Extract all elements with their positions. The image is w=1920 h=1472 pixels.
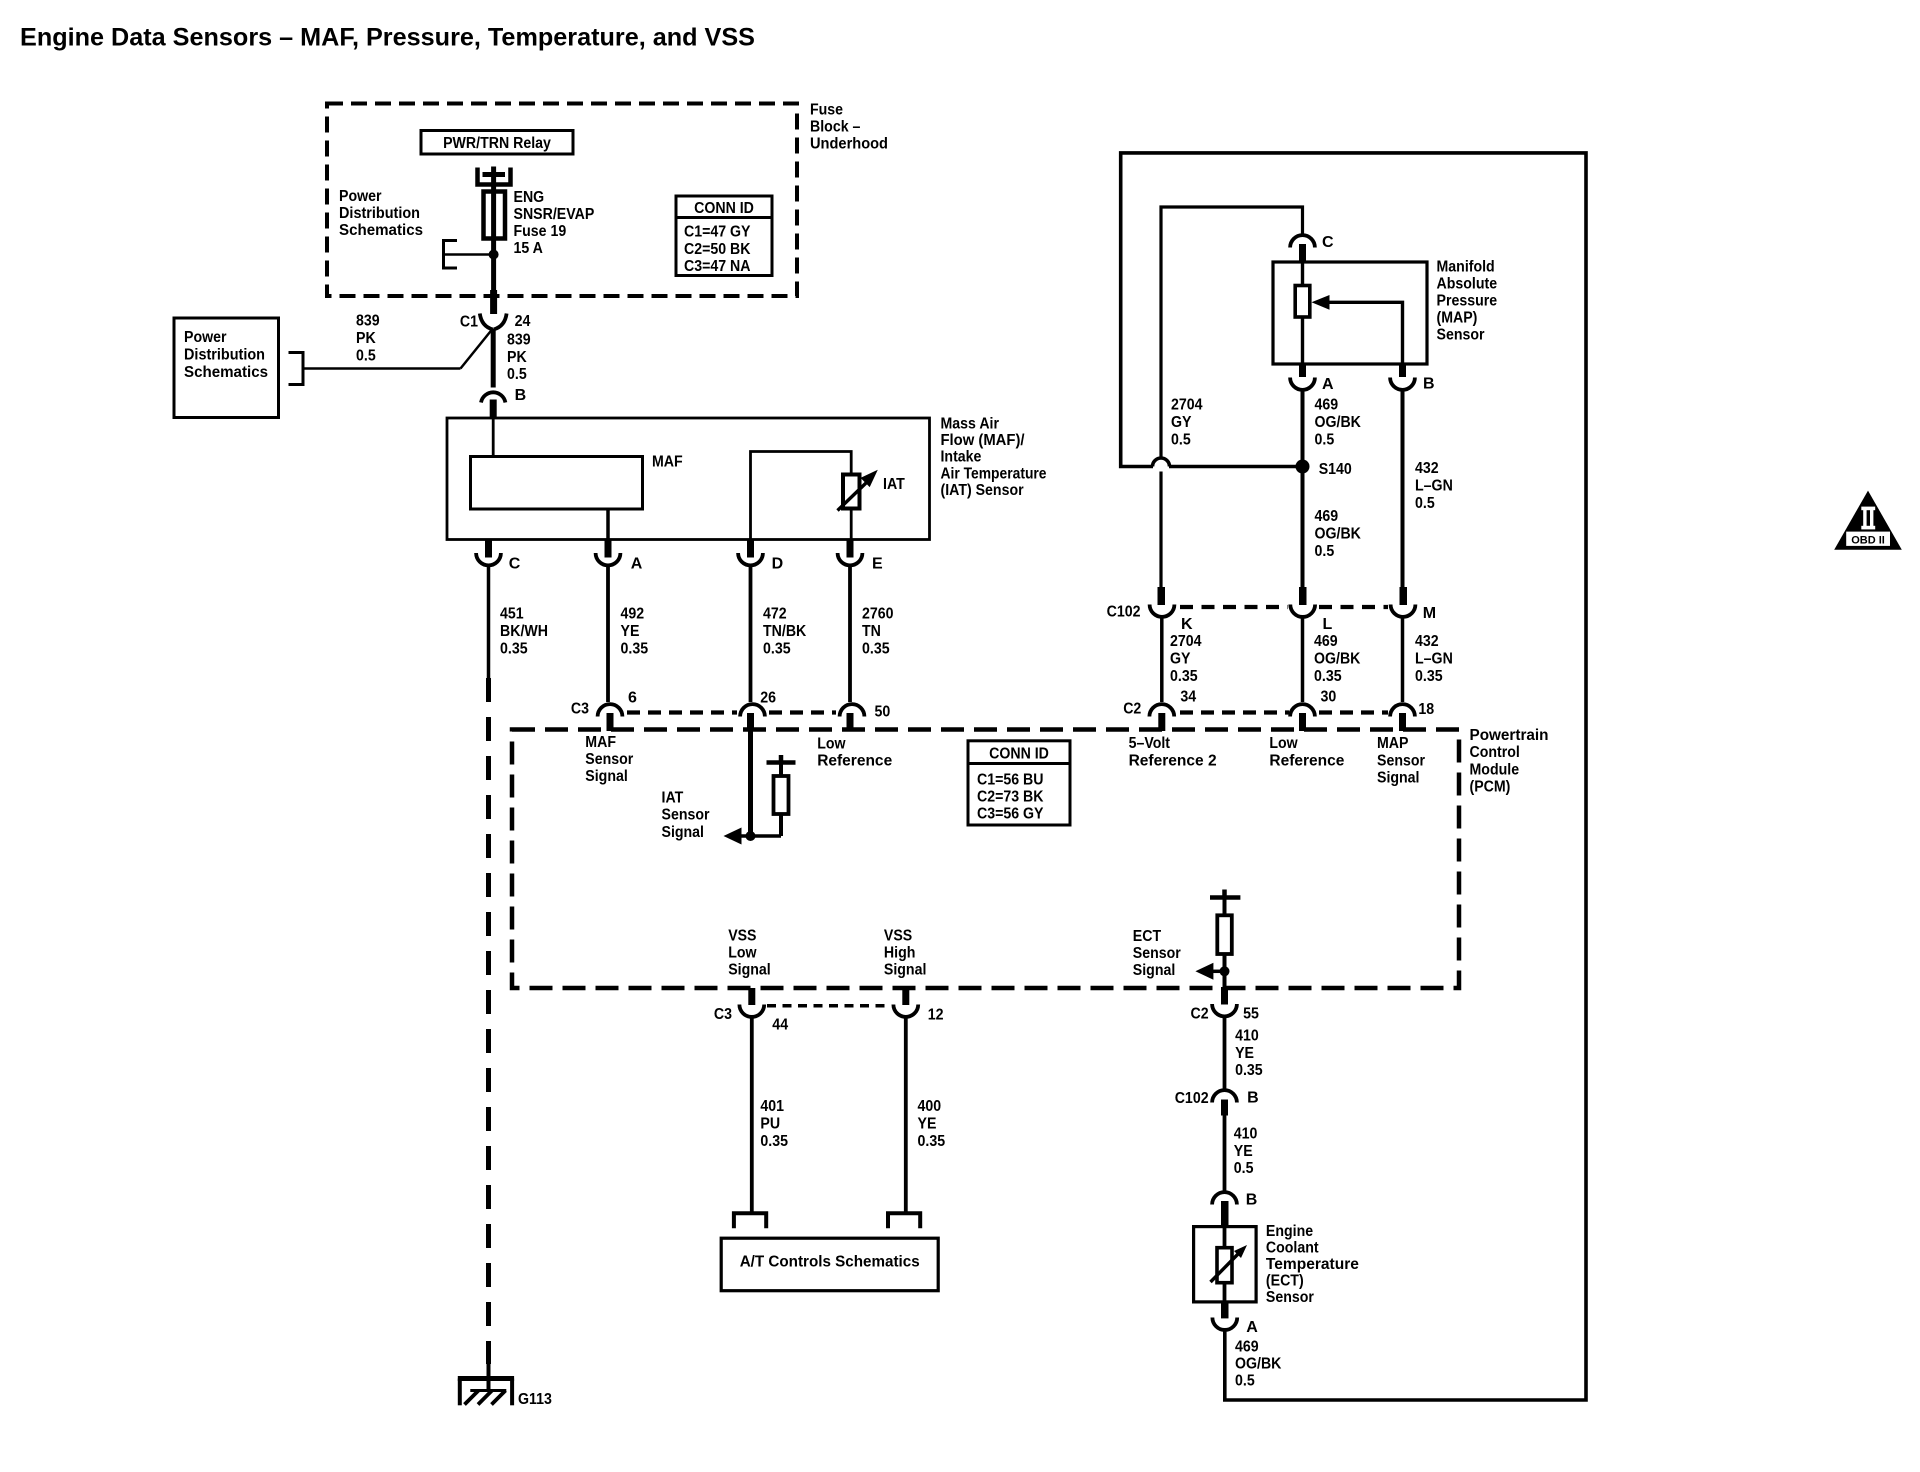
svg-text:839: 839 [356,313,380,330]
IAT thermistor wiring loop [751,452,852,541]
ECT pin A stub + connector [1212,1302,1237,1330]
wire 469 OG/BK 0.5 label (lower) [1315,508,1362,560]
connector C102 pin L [1290,587,1315,617]
wire 400 YE [904,1016,908,1214]
fuse F19 ENG SNSR/EVAP Fuse 19 15 A [484,192,506,254]
svg-text:Sensor: Sensor [1133,945,1181,962]
svg-text:Signal: Signal [1377,770,1420,787]
off-page bracket (401) [734,1213,766,1228]
MAP sensor signal label [1377,735,1425,787]
svg-text:0.5: 0.5 [1171,431,1191,448]
svg-text:Sensor: Sensor [1437,327,1485,344]
power distribution reference label (in fuse block) [339,188,423,239]
MAP potentiometer element [1295,262,1310,364]
wire 839 PK 0.5 label (right) [507,332,531,384]
svg-text:0.5: 0.5 [1315,431,1335,448]
connector B (in-line at MAF) [481,392,505,418]
svg-text:Powertrain: Powertrain [1470,727,1549,744]
wire 432 L-GN (MAP B to C102 M) [1401,389,1405,588]
svg-text:TN: TN [862,623,881,640]
svg-text:A: A [1246,1319,1258,1336]
svg-text:PK: PK [507,349,527,366]
OBD II marker [1834,491,1902,550]
svg-text:Sensor: Sensor [585,751,633,768]
svg-text:472: 472 [763,605,787,622]
svg-text:YE: YE [1234,1143,1253,1160]
VSS low signal label [728,928,771,979]
svg-text:Signal: Signal [585,768,628,785]
svg-text:(ECT): (ECT) [1266,1273,1304,1290]
svg-text:MAF: MAF [652,454,683,471]
svg-text:VSS: VSS [884,928,913,945]
connector C102 pin B [1212,1090,1237,1115]
svg-text:0.35: 0.35 [760,1133,788,1150]
svg-text:B: B [1246,1192,1258,1209]
relay K1 contact symbol [478,167,511,197]
svg-text:C3=56 GY: C3=56 GY [977,806,1044,823]
connector C3 pin 50 [840,704,865,731]
svg-text:469: 469 [1315,508,1339,525]
MAF pin C stub + connector [476,540,501,566]
svg-text:IAT: IAT [883,476,905,493]
svg-text:451: 451 [500,605,524,622]
wire 2704 GY 0.35 (K to PCM 34) [1160,616,1164,703]
low reference label (C2 30) [1269,735,1344,769]
svg-text:2704: 2704 [1170,633,1202,650]
svg-text:Manifold: Manifold [1437,259,1495,276]
svg-text:PK: PK [356,330,376,347]
IAT sensor signal label [662,790,710,841]
connector C3 pin 44 [739,988,764,1017]
C3 row dashes 26-50 [769,710,836,714]
svg-text:Intake: Intake [941,449,982,466]
svg-text:OG/BK: OG/BK [1315,414,1362,431]
wire 432 L-GN 0.35 (M to PCM 18) [1401,616,1405,703]
svg-text:S140: S140 [1319,461,1352,478]
svg-text:A: A [1322,376,1334,393]
wire 432 L-GN 0.35 label [1415,633,1453,685]
wire 492 YE [606,565,610,702]
MAP sensor label [1437,259,1498,344]
svg-text:C1: C1 [460,314,478,331]
connector C (MAP sensor) [1290,235,1315,263]
wire 432 L-GN 0.5 label [1415,460,1453,512]
svg-text:C: C [1322,234,1334,251]
svg-text:0.5: 0.5 [1415,495,1435,512]
svg-text:2760: 2760 [862,605,894,622]
svg-text:50: 50 [875,704,891,721]
svg-text:CONN ID: CONN ID [989,746,1049,763]
ECT sensor signal label [1133,928,1181,979]
svg-text:Sensor: Sensor [1266,1289,1314,1306]
svg-text:Schematics: Schematics [339,222,423,239]
wire B pin into MAF element [492,418,495,457]
svg-text:ENG: ENG [514,189,545,206]
svg-text:Reference: Reference [817,753,892,770]
svg-text:Low: Low [817,736,846,753]
junction below fuse [489,250,499,260]
svg-text:B: B [515,387,527,404]
connector B (ECT sensor) [1212,1192,1237,1227]
wire 410 YE 0.5 (C102 B to ECT B) [1223,1116,1227,1192]
svg-text:Control: Control [1470,744,1520,761]
C3 row 2 dashes 44-12 [767,1004,891,1008]
ECT pull-up rail (in PCM) [1210,890,1240,916]
wire 410 YE 0.5 label [1234,1125,1258,1177]
svg-text:Engine Data Sensors – MAF, Pre: Engine Data Sensors – MAF, Pressure, Tem… [20,24,755,52]
svg-text:55: 55 [1243,1006,1259,1023]
svg-text:IAT: IAT [662,790,684,807]
svg-text:30: 30 [1321,689,1337,706]
svg-text:5–Volt: 5–Volt [1129,735,1171,752]
CONN ID table (fuse block) [676,196,772,276]
wire 410 YE 0.35 label [1235,1027,1263,1079]
svg-text:C1=56 BU: C1=56 BU [977,772,1044,789]
svg-text:0.5: 0.5 [356,348,376,365]
MAP sensor box [1273,262,1427,364]
svg-text:B: B [1423,376,1435,393]
wire 469 OG/BK 0.35 (L to PCM 30) [1301,616,1305,703]
svg-text:(IAT) Sensor: (IAT) Sensor [941,482,1024,499]
svg-text:BK/WH: BK/WH [500,623,548,640]
svg-text:12: 12 [928,1007,944,1024]
svg-text:MAF: MAF [585,734,616,751]
power distribution bracket (left box) [289,353,304,385]
wire 492 YE label [621,605,649,657]
connector C2 pin 34 [1149,704,1174,731]
svg-text:Sensor: Sensor [1377,752,1425,769]
wire 2760 TN [848,565,852,702]
splice S140 [1296,460,1310,474]
ground G113 [458,1357,514,1405]
wire 839 PK 0.5 label (left) [356,313,380,365]
svg-text:(PCM): (PCM) [1470,779,1511,796]
svg-text:2704: 2704 [1171,396,1203,413]
svg-text:0.5: 0.5 [1315,543,1335,560]
svg-text:0.35: 0.35 [1314,668,1342,685]
svg-text:469: 469 [1235,1338,1259,1355]
relay K1 PWR/TRN Relay label box [421,131,573,155]
svg-text:C2=73 BK: C2=73 BK [977,789,1044,806]
svg-text:C3: C3 [571,701,589,718]
ECT sensor box [1194,1227,1257,1302]
svg-text:Low: Low [728,945,757,962]
svg-text:469: 469 [1314,633,1338,650]
MAP pin A stub + connector [1290,364,1315,390]
svg-text:44: 44 [772,1017,788,1034]
svg-text:Absolute: Absolute [1437,276,1498,293]
VSS high signal label [884,928,927,979]
svg-text:Fuse 19: Fuse 19 [514,223,567,240]
svg-text:OG/BK: OG/BK [1235,1355,1282,1372]
fuse block - underhood dashed box [327,104,797,297]
MAP wiper arrow [1312,295,1403,364]
connector C3 pin 12 [893,988,918,1017]
wire from power distribution to C1 [303,330,492,369]
svg-text:M: M [1423,605,1436,622]
svg-text:Mass Air: Mass Air [941,416,1000,433]
wire 2760 TN label [862,605,894,657]
svg-text:Engine: Engine [1266,1223,1313,1240]
off-page bracket (400) [888,1213,920,1228]
wire 469 OG/BK (MAP A to S140 to C102 L) [1301,389,1305,588]
A/T controls schematics box [721,1238,938,1291]
low reference label (C3 50) [817,736,892,770]
svg-text:Sensor: Sensor [662,807,710,824]
svg-text:MAP: MAP [1377,735,1409,752]
svg-text:Signal: Signal [728,962,771,979]
MAF sensor signal label [585,734,633,785]
svg-text:C: C [509,556,521,573]
svg-text:K: K [1181,616,1193,633]
wire 401 PU [750,1016,754,1214]
connector C3 pin 6 [598,704,623,731]
svg-text:C102: C102 [1175,1090,1209,1107]
svg-text:24: 24 [515,313,531,330]
C2 row dashes 34-30 [1180,710,1289,714]
svg-text:L–GN: L–GN [1415,651,1453,668]
wire 2704 GY loop (MAP pin C feed) [1161,207,1303,587]
svg-text:C2=50 BK: C2=50 BK [684,241,751,258]
wire 839 feed from fuse to C1 [491,253,496,292]
svg-text:GY: GY [1170,651,1191,668]
ECT thermistor element [1211,1227,1248,1302]
connector C102 pin M [1391,587,1416,617]
C102 row dashes K-L [1180,605,1288,609]
svg-text:YE: YE [918,1115,937,1132]
MAF/IAT sensor label [941,416,1047,499]
svg-text:YE: YE [621,623,640,640]
ECT sensor signal node wire + arrow [1195,963,1229,980]
MAP pin B stub + connector [1390,364,1415,390]
svg-text:OBD II: OBD II [1851,535,1885,547]
fuse block label [810,102,888,153]
MAF element box [471,457,643,510]
svg-text:L: L [1323,616,1333,633]
svg-text:0.35: 0.35 [500,640,528,657]
svg-text:A: A [631,556,643,573]
wire pin 26 into PCM [748,729,753,838]
svg-text:C2: C2 [1191,1006,1209,1023]
svg-text:492: 492 [621,605,645,622]
PCM dashed box [512,730,1459,989]
svg-text:0.5: 0.5 [1235,1372,1255,1389]
svg-text:OG/BK: OG/BK [1314,651,1361,668]
svg-text:C2: C2 [1123,701,1141,718]
svg-text:34: 34 [1180,689,1196,706]
wire 400 YE label [918,1098,946,1150]
svg-text:410: 410 [1234,1125,1258,1142]
svg-text:410: 410 [1235,1027,1259,1044]
svg-text:Low: Low [1269,735,1298,752]
wire 469 OG/BK 0.5 label (ECT) [1235,1338,1282,1389]
svg-text:839: 839 [507,332,531,349]
svg-text:Signal: Signal [662,824,705,841]
svg-text:432: 432 [1415,460,1439,477]
svg-text:C3=47 NA: C3=47 NA [684,258,751,275]
ECT pull-up resistor (in PCM) [1217,915,1232,987]
connector C3 pin 26 [740,704,765,731]
svg-text:Underhood: Underhood [810,136,888,153]
fuse F19 value label [514,189,595,257]
svg-text:Module: Module [1470,762,1520,779]
svg-text:G113: G113 [518,1391,552,1408]
svg-text:Temperature: Temperature [1266,1256,1359,1273]
svg-text:Air Temperature: Air Temperature [941,466,1047,483]
svg-text:GY: GY [1171,414,1192,431]
svg-text:400: 400 [918,1098,942,1115]
svg-text:Pressure: Pressure [1437,293,1498,310]
wire 401 PU label [760,1098,788,1150]
svg-text:(MAP): (MAP) [1437,310,1478,327]
IAT pull-up rail [767,755,796,776]
svg-text:Distribution: Distribution [184,346,265,363]
svg-text:15 A: 15 A [514,240,544,257]
connector C2 pin 55 [1212,987,1237,1016]
MAF pin A stub + connector [596,540,621,566]
connector C102 pin K [1150,587,1175,617]
svg-text:TN/BK: TN/BK [763,623,807,640]
svg-text:High: High [884,945,916,962]
svg-text:PU: PU [760,1115,780,1132]
svg-text:Distribution: Distribution [339,205,420,222]
svg-text:Reference 2: Reference 2 [1129,752,1217,769]
5-volt reference 2 label [1129,735,1217,769]
C2 row dashes 30-18 [1319,710,1388,714]
svg-text:Flow (MAF)/: Flow (MAF)/ [941,432,1026,449]
svg-text:0.35: 0.35 [763,640,791,657]
wire 839 PK 0.5 (C1 to B) [491,329,496,388]
C3 row dashes 6-26 [627,710,737,714]
svg-text:A/T Controls Schematics: A/T Controls Schematics [740,1254,920,1271]
svg-text:0.5: 0.5 [507,366,527,383]
svg-text:0.35: 0.35 [862,640,890,657]
svg-text:PWR/TRN Relay: PWR/TRN Relay [443,135,551,152]
svg-text:0.35: 0.35 [1170,668,1198,685]
svg-text:ECT: ECT [1133,928,1162,945]
wire 472 TN/BK label [763,605,807,657]
svg-text:SNSR/EVAP: SNSR/EVAP [514,206,595,223]
svg-text:0.5: 0.5 [1234,1160,1254,1177]
svg-text:26: 26 [760,690,776,707]
svg-text:Reference: Reference [1269,752,1344,769]
IAT thermistor RT [838,470,878,540]
svg-text:Coolant: Coolant [1266,1240,1319,1257]
MAF/IAT sensor box [447,418,930,540]
C102 row dashes L-M [1319,605,1388,609]
ECT sensor label [1266,1223,1359,1306]
svg-text:YE: YE [1235,1045,1254,1062]
connector C2 pin 18 [1390,704,1415,731]
svg-text:0.35: 0.35 [1235,1062,1263,1079]
svg-text:E: E [872,556,883,573]
power distribution schematics box (left) [174,318,279,418]
wire 451 BK/WH dashed run to G113 [486,678,491,1364]
svg-text:0.35: 0.35 [1415,668,1443,685]
svg-text:432: 432 [1415,633,1439,650]
power distribution bracket tap [444,241,494,269]
svg-text:0.35: 0.35 [621,640,649,657]
svg-text:C102: C102 [1107,604,1141,621]
svg-text:OG/BK: OG/BK [1315,525,1362,542]
connector C1 (fuse block) [480,314,507,330]
svg-text:469: 469 [1315,396,1339,413]
wire 2704 GY 0.5 label [1171,396,1203,448]
svg-text:401: 401 [760,1098,784,1115]
svg-text:Power: Power [184,329,227,346]
CONN ID table (PCM) [968,741,1070,825]
svg-text:Block –: Block – [810,119,860,136]
wire 410 YE 0.35 (C2 55 to C102 B) [1223,1015,1227,1089]
PCM label [1470,727,1549,796]
wire MAF element to pin A [606,509,610,540]
svg-text:18: 18 [1418,701,1434,718]
wire hop (469 over 2704) [1153,458,1170,472]
MAF pin E stub + connector [838,540,863,566]
MAF pin D stub + connector [738,540,763,566]
svg-text:Schematics: Schematics [184,364,268,381]
svg-text:6: 6 [628,690,637,707]
svg-text:D: D [772,556,784,573]
svg-text:C1=47 GY: C1=47 GY [684,224,751,241]
wire 2704 GY 0.35 label [1170,633,1202,685]
svg-text:Signal: Signal [1133,962,1176,979]
IAT sensor signal node wire + arrow [724,828,782,845]
IAT pull-up resistor (in PCM) [774,776,789,836]
svg-text:Signal: Signal [884,962,927,979]
svg-text:VSS: VSS [728,928,757,945]
svg-text:B: B [1247,1090,1259,1107]
svg-text:Fuse: Fuse [810,102,843,119]
wire 451 BK/WH label [500,605,548,657]
svg-text:CONN ID: CONN ID [694,200,754,217]
wire 469 OG/BK 0.5 label (upper) [1315,396,1362,448]
wire 451 BK/WH (solid part) [487,565,491,678]
svg-text:C3: C3 [714,1006,732,1023]
wire 469 OG/BK loop frame (S140 to ECT pin A) [1121,153,1586,1400]
svg-text:0.35: 0.35 [918,1133,946,1150]
wire 469 OG/BK 0.35 label [1314,633,1361,685]
wire 472 TN/BK [749,565,753,702]
svg-text:Power: Power [339,188,382,205]
connector C2 pin 30 [1290,704,1315,731]
svg-text:L–GN: L–GN [1415,477,1453,494]
